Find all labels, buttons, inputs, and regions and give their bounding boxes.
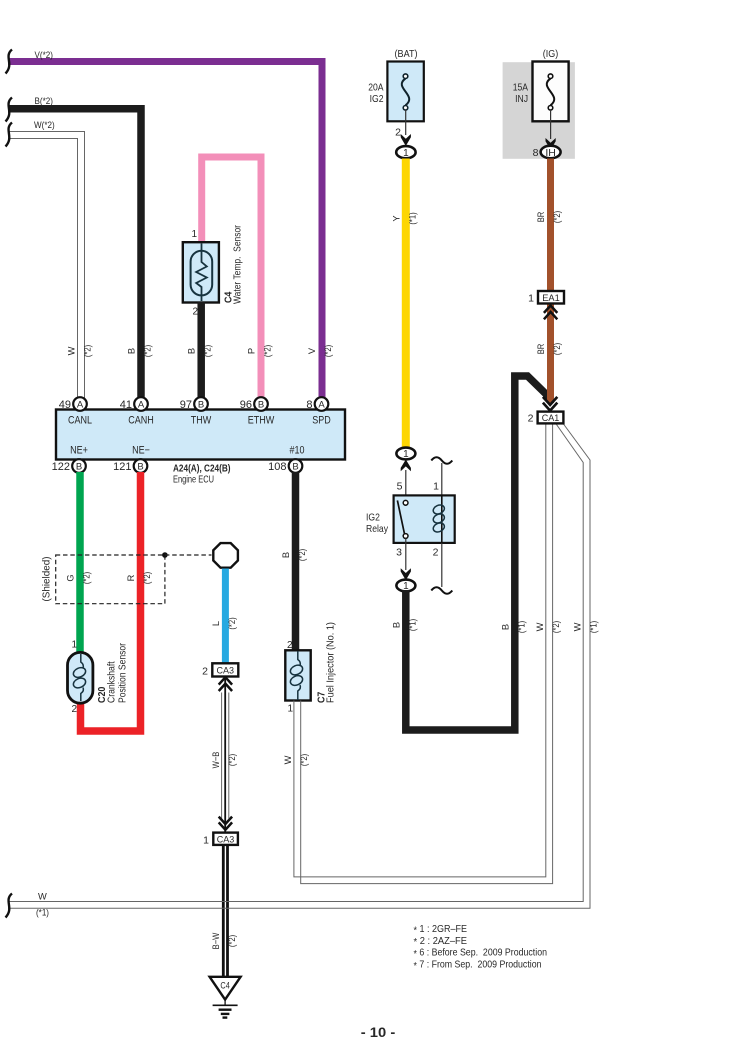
wire W(*2) white C7 pin1 to CA1: [283, 424, 553, 884]
wire P(*2) pink C4 pin1 to ECU pin 96 ETHW: [202, 157, 273, 399]
relay switch contacts: [397, 500, 408, 538]
wire L(*2) cyan octagon to CA3: [211, 569, 237, 665]
svg-text:W: W: [535, 622, 545, 631]
wire R(*2) red NE- to C20 pin2: [81, 472, 153, 731]
svg-text:Relay: Relay: [366, 523, 389, 535]
ECU pin 97 (B): [180, 397, 208, 411]
svg-text:49: 49: [59, 399, 71, 411]
svg-text:NE+: NE+: [70, 445, 88, 457]
footnote legend: [414, 924, 548, 972]
gray junction block area behind fuse 15A INJ: [503, 62, 575, 159]
svg-text:2: 2: [71, 704, 77, 715]
wire B(*1) thick black relay to CA1: [392, 376, 550, 730]
wire G(*2) green NE+ to C20 pin1: [66, 472, 92, 653]
svg-text:W: W: [283, 755, 293, 764]
svg-text:BR: BR: [536, 211, 546, 222]
svg-text:CA1: CA1: [542, 413, 560, 423]
harness chevrons down at CA3: [219, 817, 232, 830]
svg-text:Engine ECU: Engine ECU: [173, 474, 214, 486]
wire W(*1) white CA1 to page edge bottom left: [8, 424, 598, 918]
svg-text:2: 2: [528, 412, 534, 424]
svg-text:R: R: [126, 574, 136, 581]
svg-text:(*2): (*2): [142, 572, 152, 584]
svg-text:A: A: [138, 400, 145, 411]
svg-text:V(*2): V(*2): [35, 50, 53, 60]
Engine ECU box A24(A), C24(B): [56, 410, 345, 486]
harness chevrons up below EA1: [544, 306, 557, 320]
relay coil pin1 lead with break: [431, 457, 452, 496]
svg-text:(*2): (*2): [551, 621, 561, 633]
svg-text:(IG): (IG): [543, 48, 559, 60]
svg-text:B: B: [187, 348, 197, 354]
ground point C4 triangle: [210, 977, 241, 1000]
IG2 relay box: [366, 495, 455, 543]
svg-text:B: B: [258, 400, 264, 411]
svg-text:IH: IH: [545, 148, 556, 159]
svg-text:8: 8: [306, 399, 312, 411]
svg-text:L: L: [211, 621, 221, 626]
ground symbol: [213, 1000, 238, 1018]
labels wire V(*2) into SPD: [307, 345, 333, 357]
svg-text:B−W: B−W: [211, 932, 221, 949]
svg-text:8: 8: [533, 147, 539, 159]
svg-text:Fuel Injector (No. 1): Fuel Injector (No. 1): [325, 622, 337, 703]
svg-text:SPD: SPD: [312, 415, 331, 427]
svg-text:P: P: [247, 348, 257, 354]
svg-text:Water Temp. Sensor: Water Temp. Sensor: [232, 225, 244, 304]
svg-text:W: W: [67, 346, 77, 355]
shield ground octagon node: [213, 543, 238, 568]
svg-text:3: 3: [396, 547, 402, 559]
svg-text:1: 1: [528, 292, 534, 304]
ECU pin 41 (A): [120, 397, 148, 411]
junction node dot on shield: [162, 552, 168, 558]
svg-text:(*2): (*2): [323, 345, 333, 357]
relay coil: [432, 495, 446, 543]
connector oval 1 below relay: [396, 580, 415, 593]
svg-text:ETHW: ETHW: [248, 415, 275, 427]
connector 1 EA1: [528, 291, 564, 304]
fuse 15A INJ (IG): [513, 48, 569, 139]
svg-text:(*2): (*2): [82, 572, 92, 584]
svg-text:(*2): (*2): [227, 617, 237, 629]
svg-text:- 10 -: - 10 -: [361, 1025, 396, 1040]
svg-text:C4: C4: [220, 981, 229, 991]
svg-text:(*2): (*2): [203, 345, 213, 357]
break symbol wire V: [6, 50, 13, 74]
svg-text:#10: #10: [290, 445, 305, 457]
break symbol wire B: [6, 98, 13, 122]
harness arrow down at fuse IG: [546, 138, 556, 150]
svg-text:122: 122: [52, 461, 70, 473]
relay pin5 lead: [397, 470, 406, 501]
ECU pin 121 (B): [113, 459, 147, 473]
svg-text:(*2): (*2): [227, 754, 237, 766]
svg-text:B: B: [501, 624, 511, 630]
svg-text:B: B: [281, 552, 291, 558]
ECU pin 96 (B): [240, 397, 268, 411]
harness chevrons down above CA1: [543, 397, 557, 411]
svg-text:(*1): (*1): [408, 619, 418, 631]
svg-text:(*2): (*2): [552, 211, 562, 223]
svg-text:B: B: [137, 462, 143, 473]
svg-text:W−B: W−B: [211, 752, 221, 769]
svg-text:W: W: [38, 892, 47, 902]
labels wire W(*2) into CANL: [67, 345, 93, 357]
connector 2 CA1: [528, 412, 564, 425]
wire V(*2) purple to ECU pin 8 SPD: [8, 50, 322, 399]
connector oval 1 above relay: [396, 448, 415, 461]
svg-text:EA1: EA1: [542, 293, 560, 303]
crankshaft position sensor C20: [68, 640, 129, 716]
svg-text:B: B: [127, 348, 137, 354]
svg-text:G: G: [66, 574, 76, 581]
svg-text:A: A: [77, 400, 84, 411]
svg-text:1: 1: [287, 703, 293, 714]
harness chevrons up at CA3: [219, 677, 232, 691]
ECU pin 108 (B): [268, 459, 302, 473]
relay pin3 lead: [396, 538, 406, 570]
ECU pin 49 (A): [59, 397, 87, 411]
wire B(*2) black ECU #10 to C7 pin2: [281, 472, 307, 651]
connector 1 CA3: [203, 833, 238, 847]
svg-text:(*2): (*2): [263, 345, 273, 357]
svg-text:41: 41: [120, 399, 132, 411]
svg-text:2: 2: [287, 640, 293, 651]
wire W-B white/black stripe between CA3 connectors: [211, 678, 237, 832]
svg-text:1: 1: [403, 148, 409, 159]
svg-text:15A: 15A: [513, 82, 528, 94]
shielded wire dashed box: [41, 555, 165, 604]
svg-text:* 1 : 2GR–FE: * 1 : 2GR–FE: [414, 924, 468, 936]
svg-text:(*2): (*2): [143, 345, 153, 357]
svg-text:Y: Y: [392, 215, 402, 221]
connector oval 8 IH: [533, 146, 561, 159]
dashed shield drain wire to octagon: [165, 554, 212, 556]
svg-text:* 7 : From Sep. 2009 Producti: * 7 : From Sep. 2009 Production: [414, 960, 542, 972]
svg-text:A: A: [318, 400, 325, 411]
svg-text:(*1): (*1): [588, 621, 598, 633]
svg-text:(BAT): (BAT): [395, 48, 418, 60]
svg-text:CANL: CANL: [68, 415, 92, 427]
svg-text:97: 97: [180, 399, 192, 411]
svg-text:B: B: [198, 400, 204, 411]
svg-text:B: B: [76, 462, 82, 473]
svg-text:IG2: IG2: [366, 512, 380, 524]
svg-text:108: 108: [268, 461, 286, 473]
wire Y(*1) yellow to IG2 relay: [392, 159, 418, 448]
svg-text:(*2): (*2): [552, 343, 562, 355]
labels wire BR(*2) EA1 to CA1: [536, 343, 562, 355]
svg-text:CA3: CA3: [217, 666, 235, 676]
svg-text:(Shielded): (Shielded): [41, 557, 53, 602]
ECU pin 122 (B): [52, 459, 86, 473]
break symbol wire W(*1) bottom left: [6, 894, 13, 918]
fuse 20A IG2 (BAT): [368, 48, 424, 139]
wire B(*2) black C4 pin2 to ECU pin 97 THW: [187, 302, 213, 399]
ECU pin 8 (A): [306, 397, 328, 411]
svg-text:W: W: [572, 622, 582, 631]
svg-text:THW: THW: [191, 415, 212, 427]
svg-text:IG2: IG2: [370, 93, 384, 105]
wire B(*2) black to ECU pin 41 CANH: [8, 96, 141, 399]
svg-text:* 6 : Before Sep. 2009 Produc: * 6 : Before Sep. 2009 Production: [414, 948, 548, 960]
labels W(*2) below CA1: [535, 621, 561, 633]
svg-text:CA3: CA3: [217, 834, 235, 844]
svg-text:W(*2): W(*2): [34, 120, 55, 130]
labels wire B(*2) into CANH: [127, 345, 153, 357]
svg-text:(*1): (*1): [36, 908, 49, 918]
svg-text:96: 96: [240, 399, 252, 411]
svg-text:BR: BR: [536, 343, 546, 354]
harness arrow down below relay: [401, 568, 411, 580]
svg-text:(*2): (*2): [299, 754, 309, 766]
svg-text:2: 2: [395, 127, 401, 139]
svg-text:1: 1: [433, 481, 439, 493]
svg-text:CANH: CANH: [128, 415, 154, 427]
svg-text:121: 121: [113, 461, 131, 473]
svg-text:(*1): (*1): [517, 621, 527, 633]
svg-text:(*2): (*2): [227, 935, 237, 947]
connector oval 1 below fuse BAT: [396, 146, 415, 159]
wire BR(*2) brown IH to EA1 to CA1: [536, 159, 562, 404]
water temp sensor C4: [183, 225, 244, 318]
connector 2 CA3: [202, 663, 238, 677]
relay coil pin2 lead with break: [431, 543, 452, 594]
wire W(*2) white outline to ECU pin 49 CANL: [8, 120, 85, 399]
svg-text:V: V: [307, 347, 317, 354]
svg-text:1: 1: [203, 834, 209, 846]
svg-text:B: B: [292, 462, 298, 473]
svg-text:1: 1: [191, 229, 197, 240]
break symbol wire W: [6, 123, 13, 147]
svg-text:20A: 20A: [368, 82, 383, 94]
svg-text:* 2 : 2AZ–FE: * 2 : 2AZ–FE: [414, 936, 468, 948]
svg-text:1: 1: [403, 449, 409, 460]
svg-text:Position Sensor: Position Sensor: [117, 643, 129, 703]
svg-text:B(*2): B(*2): [35, 96, 53, 106]
svg-text:1: 1: [71, 640, 77, 651]
svg-text:(*2): (*2): [83, 345, 93, 357]
svg-text:INJ: INJ: [515, 93, 528, 105]
svg-text:B: B: [392, 622, 402, 628]
svg-text:NE−: NE−: [132, 445, 150, 457]
svg-text:5: 5: [397, 481, 403, 493]
wire B-W black/white stripe CA3 to ground: [211, 845, 237, 977]
svg-text:2: 2: [433, 547, 439, 559]
svg-text:(*2): (*2): [297, 549, 307, 561]
harness arrow up below oval: [401, 460, 411, 472]
fuel injector C7: [285, 622, 336, 714]
harness arrow down at fuse BAT: [401, 134, 411, 146]
svg-text:(*1): (*1): [408, 212, 418, 224]
svg-text:2: 2: [202, 665, 208, 677]
